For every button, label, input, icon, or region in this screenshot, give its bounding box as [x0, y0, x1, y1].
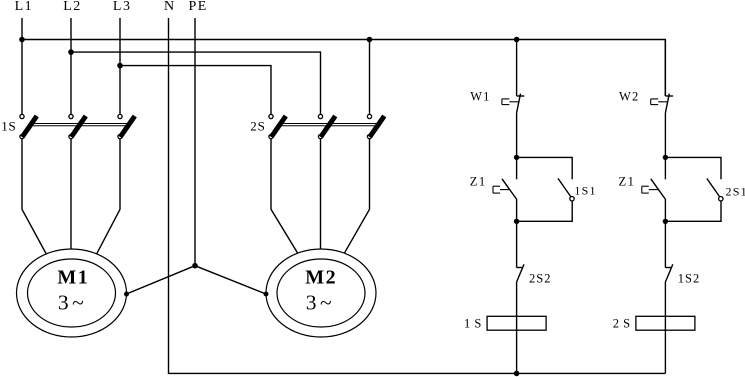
node L2 tap [68, 49, 74, 55]
wire N vertical and bottom return [169, 18, 666, 373]
wire through coil 2S [664, 282, 666, 373]
wire L1 drop to 2S pole3 [369, 40, 371, 115]
node PE junction [192, 263, 198, 269]
pushbutton W2 (NC stop) [651, 94, 673, 113]
wire 1S pole2 to M1 [70, 139, 72, 249]
label N [164, 0, 174, 14]
node L1 tap [19, 37, 25, 43]
label 1S2 [678, 271, 700, 285]
node M2 frame [264, 292, 269, 297]
wire 2S pole3 to M2 [344, 139, 370, 254]
label L1 [15, 0, 34, 14]
wire Z1a bottom stub [516, 199, 518, 222]
svg-text:L3: L3 [113, 0, 132, 14]
svg-text:1S2: 1S2 [678, 271, 700, 285]
wire feed to W2 [664, 40, 666, 97]
label 1S [1, 119, 16, 134]
node control branch1 tap [514, 37, 520, 43]
wire Z1b top stub [664, 157, 666, 179]
wire 1S pole1 to M1 [22, 139, 46, 254]
wire L1 distribution bus [22, 39, 665, 41]
label 2S1 [726, 184, 745, 198]
contactor 2S pole3 (switch) [367, 114, 384, 138]
label L3 [113, 0, 132, 14]
label 2S coil [613, 316, 631, 330]
wire PE vertical [194, 18, 196, 266]
wire through coil 1S [516, 282, 518, 373]
wire aux branch lower [665, 201, 721, 221]
wire L3 distribution to 2S pole1 [120, 66, 271, 115]
svg-text:M2: M2 [305, 266, 337, 288]
label 2S2 [529, 271, 551, 285]
wire Z1b bottom stub [664, 199, 666, 222]
wire aux branch lower [517, 201, 573, 221]
wire Z1a top stub [516, 157, 518, 179]
auxiliary contact 1S1 (NO) [558, 178, 574, 201]
pushbutton Z1b (NO start) [642, 179, 665, 199]
svg-text:1S: 1S [1, 119, 16, 134]
label W1 [470, 89, 490, 103]
wire to 1S2 [664, 221, 666, 267]
wire feed to W1 [516, 40, 518, 97]
contactor 1S linkage [30, 124, 128, 126]
motor M1 [17, 249, 127, 337]
contactor 2S pole2 (switch) [318, 114, 335, 138]
wire 2S pole1 to M2 [271, 139, 298, 254]
interlock contact 1S2 (NC) [665, 264, 673, 282]
wire right branch top drop [664, 39, 666, 96]
wire to 2S2 [516, 221, 518, 267]
svg-text:2S2: 2S2 [529, 271, 551, 285]
node 2S pole3 tap [367, 37, 373, 43]
label 2S [250, 119, 265, 134]
node branch rejoin [663, 219, 668, 224]
svg-text:2S: 2S [250, 119, 265, 134]
label PE [189, 0, 208, 14]
label Z1a [470, 174, 487, 188]
wire 2S pole2 to M2 [320, 139, 322, 250]
svg-text:1S1: 1S1 [574, 183, 596, 197]
contactor 1S pole3 (switch) [118, 114, 135, 138]
svg-text:3~: 3~ [306, 290, 335, 314]
label 1S coil [464, 316, 482, 330]
node bottom return tap [514, 371, 520, 377]
wire L2 vertical [70, 18, 72, 115]
label L2 [63, 0, 82, 14]
svg-text:Z1: Z1 [619, 174, 636, 188]
wire aux branch upper [665, 157, 721, 179]
svg-text:M1: M1 [57, 266, 89, 288]
node M1 frame [124, 292, 129, 297]
wire PE to M1 frame [127, 266, 196, 294]
svg-text:L1: L1 [15, 0, 34, 14]
wire PE to M2 frame [195, 266, 266, 294]
coil 2S [636, 316, 695, 330]
label W2 [619, 89, 639, 103]
wire W2 to node [664, 113, 666, 158]
coil 1S [487, 316, 546, 330]
label Z1b [619, 174, 636, 188]
interlock contact 2S2 (NC) [516, 264, 524, 282]
svg-text:3~: 3~ [58, 290, 87, 314]
svg-text:Z1: Z1 [470, 174, 487, 188]
contactor 2S pole1 (switch) [269, 114, 286, 138]
contactor 1S pole2 (switch) [69, 114, 86, 138]
wire 1S pole3 to M1 [97, 139, 120, 254]
wire L3 vertical [119, 18, 121, 115]
svg-text:2S1: 2S1 [726, 184, 745, 198]
auxiliary contact 2S1 (NO) [707, 178, 723, 201]
node branch rejoin [514, 219, 519, 224]
node below W1 [514, 155, 519, 160]
node L3 tap [117, 63, 123, 69]
contactor 1S pole1 (switch) [20, 114, 37, 138]
svg-text:1 S: 1 S [464, 316, 482, 330]
wire aux branch upper [517, 157, 573, 179]
contactor 2S linkage [279, 124, 378, 126]
svg-text:W1: W1 [470, 89, 490, 103]
motor M2 [266, 249, 376, 337]
svg-text:N: N [164, 0, 174, 14]
node below W2 [663, 155, 668, 160]
pushbutton Z1a (NO start) [493, 179, 516, 199]
svg-text:PE: PE [189, 0, 208, 14]
svg-text:2 S: 2 S [613, 316, 631, 330]
wire L1 vertical [21, 18, 23, 115]
label 1S1 [574, 183, 596, 197]
svg-text:W2: W2 [619, 89, 639, 103]
svg-text:L2: L2 [63, 0, 82, 14]
pushbutton W1 (NC stop) [502, 94, 524, 113]
wire W1 to node [516, 113, 518, 158]
wire L2 distribution to 2S pole2 [71, 52, 321, 115]
